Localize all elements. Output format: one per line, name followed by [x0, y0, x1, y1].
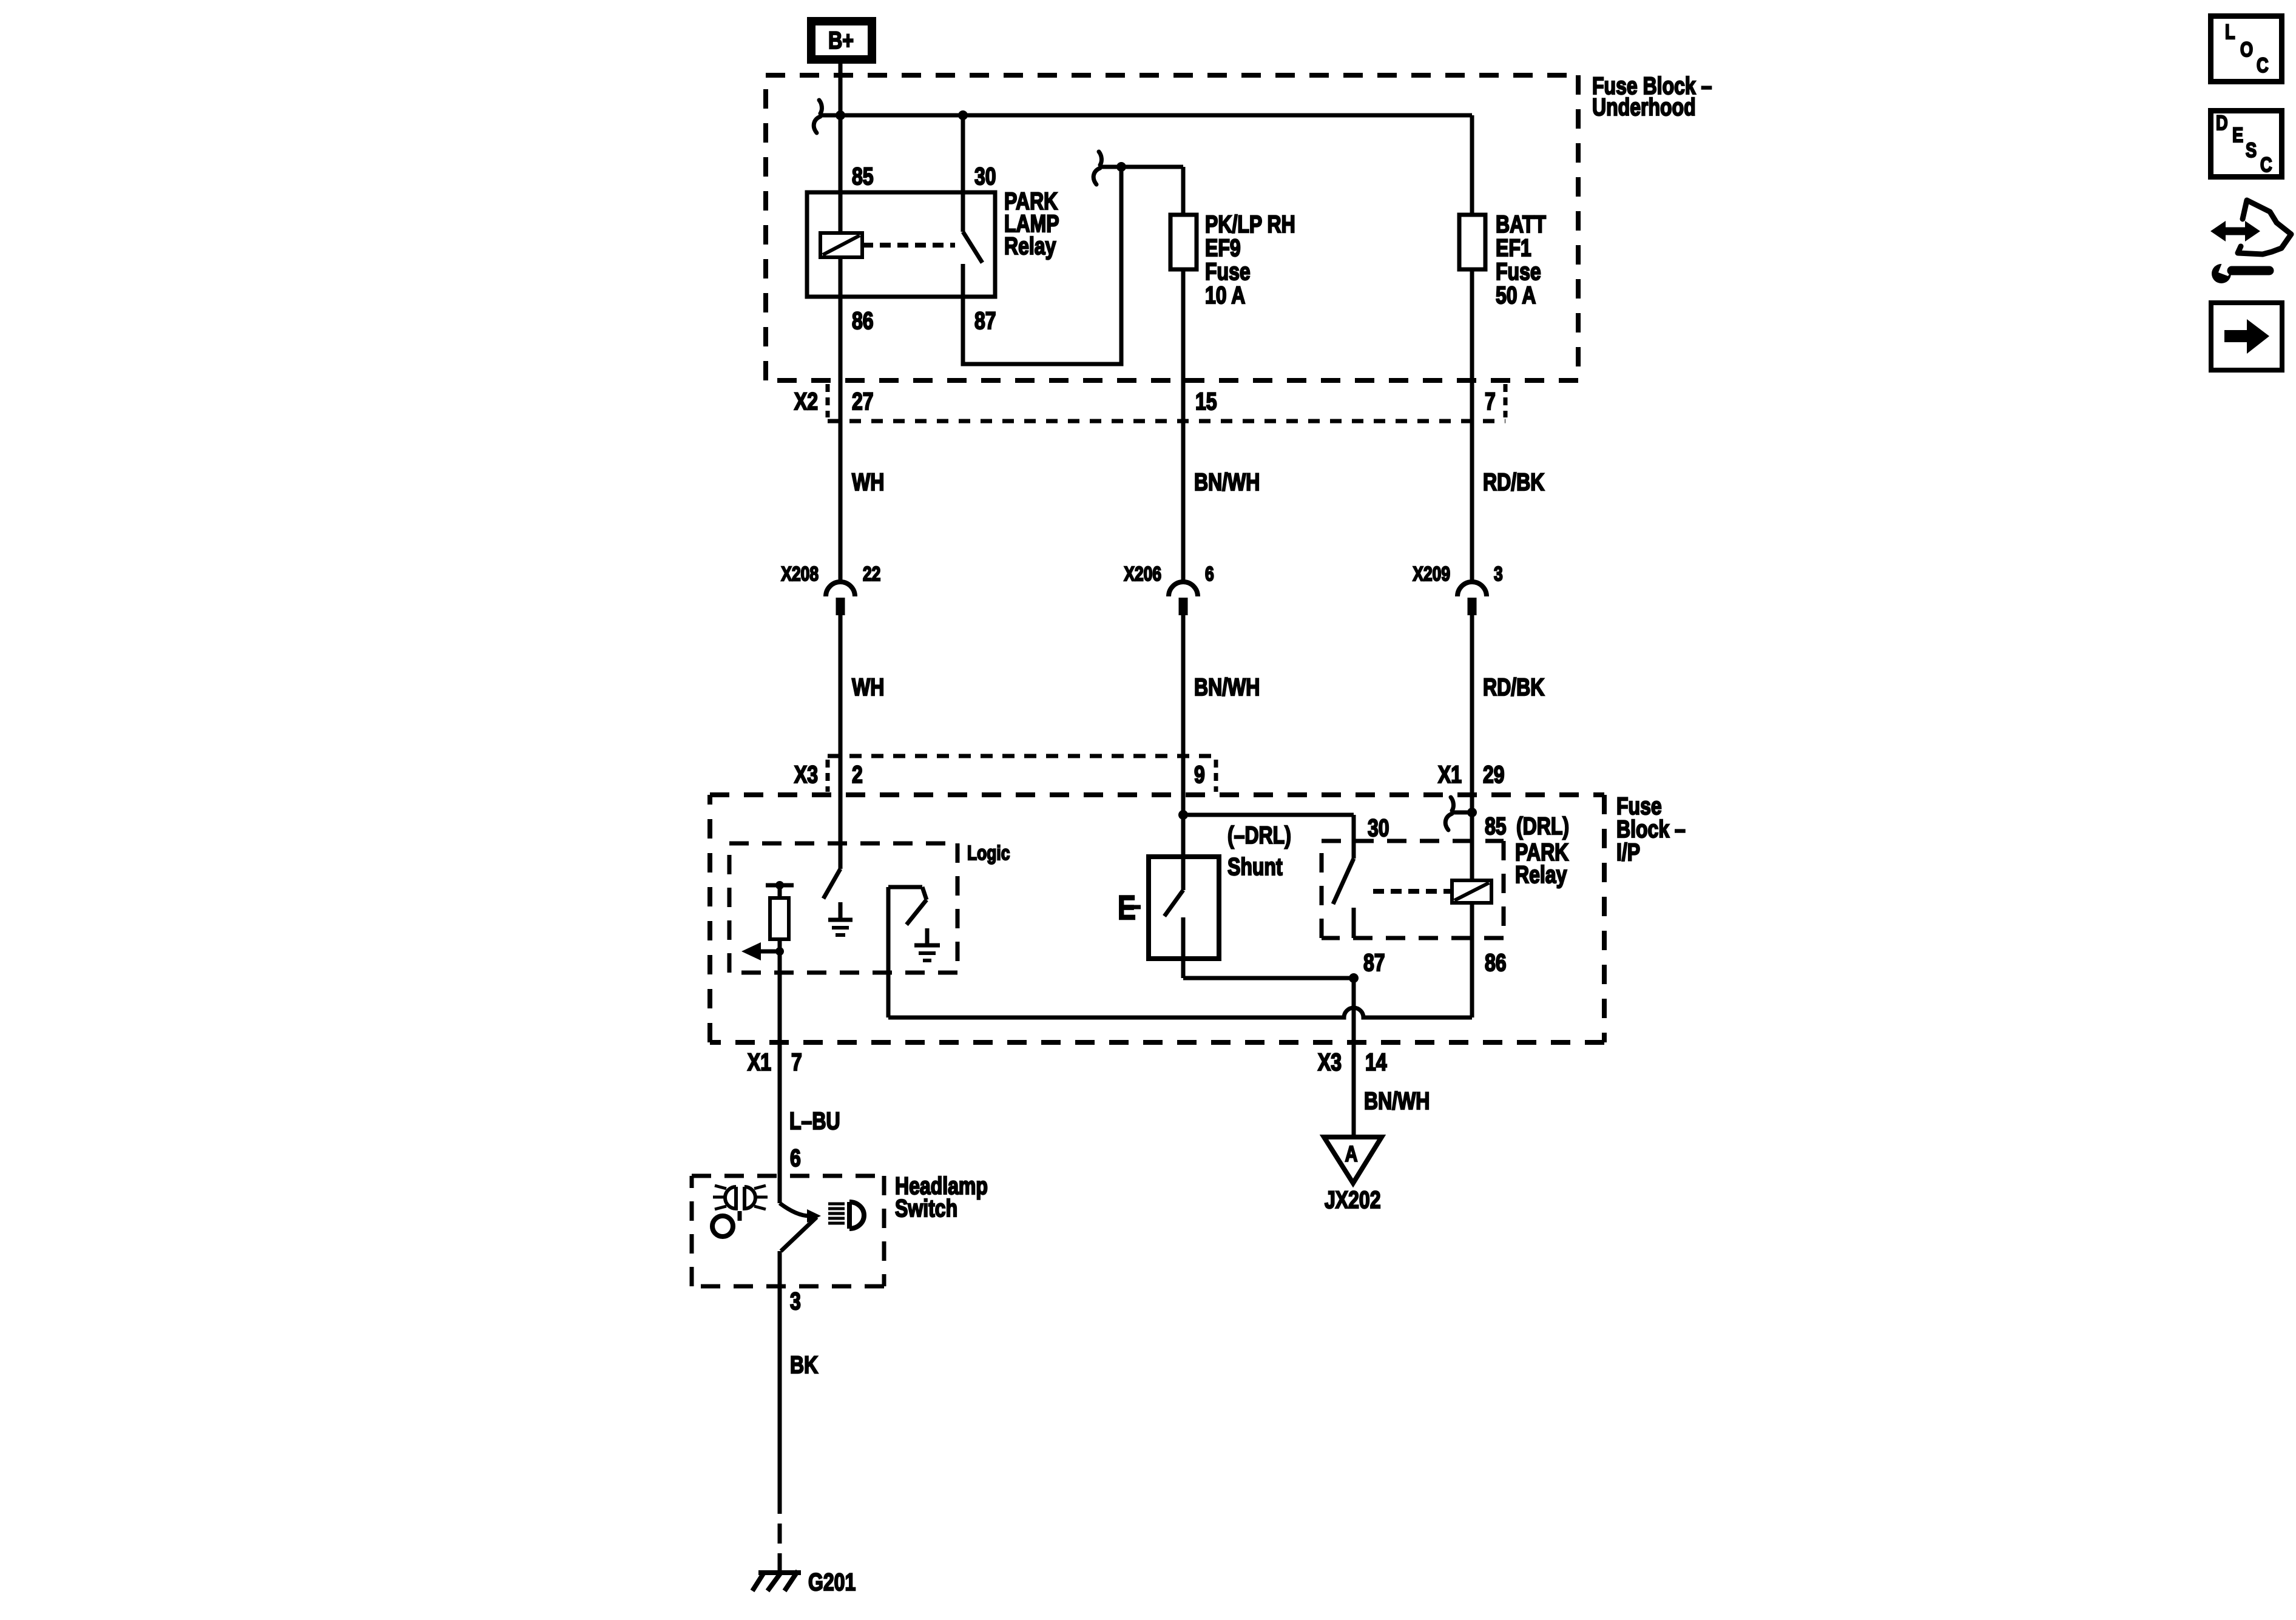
- svg-text:BN/WH: BN/WH: [1364, 1087, 1430, 1115]
- svg-text:(DRL): (DRL): [1516, 812, 1569, 840]
- svg-text:Relay: Relay: [1515, 861, 1567, 888]
- svg-text:E: E: [1118, 888, 1136, 926]
- svg-text:22: 22: [863, 563, 880, 585]
- svg-text:(–DRL): (–DRL): [1227, 822, 1291, 849]
- svg-text:30: 30: [1368, 814, 1389, 842]
- svg-text:3: 3: [790, 1288, 801, 1315]
- svg-text:C: C: [2260, 153, 2272, 177]
- svg-text:85: 85: [1485, 812, 1507, 840]
- svg-text:10 A: 10 A: [1205, 282, 1245, 309]
- svg-text:X206: X206: [1124, 563, 1161, 585]
- svg-text:S: S: [2246, 138, 2257, 162]
- svg-text:RD/BK: RD/BK: [1483, 468, 1544, 496]
- svg-text:WH: WH: [852, 673, 884, 701]
- svg-text:WH: WH: [852, 468, 884, 496]
- svg-text:C: C: [2257, 53, 2269, 77]
- svg-text:X2: X2: [794, 388, 818, 415]
- svg-text:X3: X3: [1318, 1048, 1342, 1076]
- svg-text:X1: X1: [1438, 761, 1462, 788]
- svg-text:50 A: 50 A: [1496, 282, 1536, 309]
- svg-text:BN/WH: BN/WH: [1194, 468, 1260, 496]
- svg-text:6: 6: [1205, 563, 1214, 585]
- svg-text:29: 29: [1483, 761, 1505, 788]
- svg-text:30: 30: [974, 163, 996, 190]
- svg-text:Switch: Switch: [895, 1195, 957, 1222]
- svg-text:85: 85: [852, 163, 874, 190]
- svg-text:O: O: [2240, 38, 2253, 61]
- svg-text:X208: X208: [781, 563, 819, 585]
- svg-text:27: 27: [852, 388, 874, 415]
- svg-text:86: 86: [1485, 949, 1507, 976]
- svg-text:X209: X209: [1413, 563, 1450, 585]
- svg-text:L: L: [2225, 20, 2235, 44]
- svg-text:7: 7: [1485, 388, 1496, 415]
- svg-text:3: 3: [1494, 563, 1503, 585]
- svg-text:L–BU: L–BU: [789, 1107, 840, 1135]
- svg-text:87: 87: [1363, 949, 1385, 976]
- svg-text:BN/WH: BN/WH: [1194, 673, 1260, 701]
- svg-text:X3: X3: [794, 761, 818, 788]
- svg-text:7: 7: [791, 1048, 802, 1076]
- svg-text:X1: X1: [748, 1048, 771, 1076]
- svg-text:A: A: [1345, 1141, 1358, 1166]
- svg-text:D: D: [2216, 111, 2228, 135]
- svg-text:I/P: I/P: [1616, 839, 1640, 866]
- svg-text:Logic: Logic: [967, 842, 1010, 864]
- svg-text:Shunt: Shunt: [1227, 853, 1283, 880]
- svg-text:6: 6: [790, 1144, 801, 1172]
- svg-text:87: 87: [974, 307, 996, 334]
- svg-text:Relay: Relay: [1004, 232, 1056, 260]
- svg-text:86: 86: [852, 307, 874, 334]
- svg-text:JX202: JX202: [1325, 1186, 1381, 1213]
- svg-text:15: 15: [1195, 388, 1217, 415]
- svg-text:9: 9: [1194, 761, 1205, 788]
- svg-text:2: 2: [852, 761, 863, 788]
- svg-text:E: E: [2232, 123, 2243, 147]
- svg-text:BK: BK: [790, 1351, 818, 1379]
- svg-text:14: 14: [1365, 1048, 1387, 1076]
- svg-text:B+: B+: [828, 27, 854, 54]
- svg-text:G201: G201: [808, 1568, 856, 1596]
- svg-text:RD/BK: RD/BK: [1483, 673, 1544, 701]
- svg-text:Underhood: Underhood: [1592, 93, 1696, 121]
